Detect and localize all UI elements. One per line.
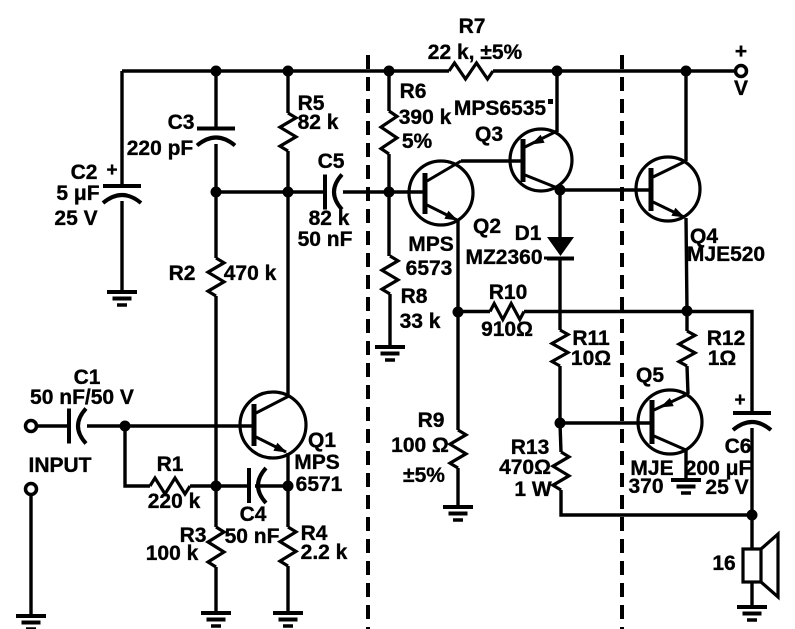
wire bottom rail to speaker <box>750 515 753 549</box>
node Q1 emitter/R4 junction <box>283 481 294 492</box>
svg-text:R9: R9 <box>418 409 445 432</box>
svg-text:370: 370 <box>628 475 663 498</box>
resistor R2 body <box>208 258 224 296</box>
label C6 plus <box>734 390 745 411</box>
node C1/R1 junction <box>120 421 131 432</box>
svg-text:C2: C2 <box>71 161 98 184</box>
wire left rail down to C2 <box>120 71 123 186</box>
wire rail to R6 <box>387 71 390 111</box>
svg-text:MPS: MPS <box>294 451 340 474</box>
svg-text:25 V: 25 V <box>54 207 97 230</box>
wire R5 to node C <box>286 151 289 192</box>
wire C2 to ground <box>120 201 123 292</box>
svg-text:100 Ω: 100 Ω <box>391 434 449 457</box>
node B junction C3/R2 <box>211 187 222 198</box>
label Q2 type1 <box>408 233 454 256</box>
terminal input bottom <box>26 484 37 495</box>
transistor Q5 <box>638 390 702 454</box>
node rail/Q3 emitter junction <box>552 66 563 77</box>
svg-text:R1: R1 <box>157 453 184 476</box>
svg-text:50 nF/50 V: 50 nF/50 V <box>30 386 134 409</box>
label speaker impedance <box>712 552 735 575</box>
wire node B to R2 <box>214 192 217 258</box>
ground below C2 <box>107 292 137 305</box>
svg-text:25 V: 25 V <box>705 476 748 499</box>
wire D1 node to output node <box>560 310 687 313</box>
label Q4 <box>690 225 718 248</box>
resistor R7 body <box>449 63 493 79</box>
label R11 value <box>571 347 611 370</box>
svg-text:C3: C3 <box>168 111 195 134</box>
svg-text:470 k: 470 k <box>224 262 277 285</box>
svg-text:470Ω: 470Ω <box>499 456 551 479</box>
label Q5 <box>636 364 664 387</box>
svg-text:C6: C6 <box>725 435 752 458</box>
label C4 <box>240 503 267 526</box>
wire Q2 collector to Q3 base <box>461 159 523 162</box>
label C1 <box>74 366 101 389</box>
label R9 <box>418 409 445 432</box>
node R2/R3/R1 junction <box>211 481 222 492</box>
svg-text:+: + <box>106 160 117 181</box>
speaker 16 ohm <box>743 534 778 597</box>
wire node C to C5 <box>288 190 325 193</box>
label R13 <box>511 436 550 459</box>
wire R6 to base node <box>387 154 390 192</box>
label R6 <box>400 80 427 103</box>
capacitor C1 <box>69 409 86 444</box>
label R3 <box>180 524 207 547</box>
svg-text:V: V <box>734 77 748 100</box>
svg-text:R8: R8 <box>401 285 428 308</box>
label Q2 type2 <box>406 257 453 280</box>
terminal input top <box>26 421 37 432</box>
resistor R3 body <box>208 527 224 567</box>
svg-text:82 k: 82 k <box>298 111 339 134</box>
svg-text:C5: C5 <box>318 150 345 173</box>
label R8 <box>401 285 428 308</box>
wire R13 to bottom rail <box>561 490 752 515</box>
ground below R3 <box>201 613 231 626</box>
resistor R5 body <box>280 113 296 151</box>
transistor Q1 <box>240 392 306 458</box>
node R11/R13/Q5 base junction <box>555 418 566 429</box>
svg-text:82 k: 82 k <box>309 207 350 230</box>
wire D1 to R10 node <box>558 258 561 311</box>
wire R4 to ground <box>286 566 289 613</box>
svg-text:50 nF: 50 nF <box>298 228 353 251</box>
svg-text:+: + <box>735 40 747 63</box>
label INPUT <box>29 454 92 477</box>
wire R10 left lead <box>458 310 490 313</box>
wire rail to C3 <box>214 71 217 128</box>
label + of V terminal <box>735 40 747 63</box>
label MZ2360 dash <box>544 257 557 260</box>
transistor Q3 <box>510 129 572 191</box>
label R8 value <box>400 310 441 333</box>
resistor R8 body <box>382 256 398 294</box>
svg-text:R6: R6 <box>400 80 427 103</box>
svg-text:6573: 6573 <box>406 257 453 280</box>
label R7 value <box>428 41 523 64</box>
svg-text:Q5: Q5 <box>636 364 664 387</box>
wire rail to R5 <box>286 71 289 113</box>
label Q5 type2 <box>628 475 663 498</box>
wire speaker to ground <box>750 582 753 607</box>
svg-text:10Ω: 10Ω <box>571 347 611 370</box>
capacitor C4 <box>249 468 266 503</box>
node rail/Q4 collector junction <box>681 66 692 77</box>
label R7 <box>459 15 486 38</box>
label C6 value <box>685 457 752 480</box>
wire R1 to R3 node <box>190 484 216 487</box>
svg-text:2.2 k: 2.2 k <box>301 541 348 564</box>
svg-text:220 k: 220 k <box>148 490 201 513</box>
label D1 <box>515 222 542 245</box>
label R6 value <box>399 106 452 129</box>
label V terminal <box>734 77 748 100</box>
label C5 value <box>309 207 350 230</box>
resistor R4 body <box>280 527 296 566</box>
node R6/Q2 base junction <box>384 187 395 198</box>
wire input to C1 <box>37 424 69 427</box>
svg-text:±5%: ±5% <box>403 464 445 487</box>
svg-text:100 k: 100 k <box>146 542 199 565</box>
label R3 value <box>146 542 199 565</box>
terminal +V <box>736 66 747 77</box>
wire top rail right of R7 <box>493 69 735 72</box>
capacitor C5 <box>325 175 342 210</box>
label R13 power <box>514 478 552 501</box>
ground below R8 <box>375 347 405 360</box>
node rail-R5 junction <box>283 66 294 77</box>
svg-text:390 k: 390 k <box>399 106 452 129</box>
wire C6 to bottom rail <box>750 428 753 515</box>
label R6 tol <box>402 130 433 153</box>
label R10 value <box>481 318 533 341</box>
label Q4 type <box>687 243 765 266</box>
svg-text:D1: D1 <box>515 222 542 245</box>
label R5 <box>298 92 325 115</box>
svg-text:R10: R10 <box>489 281 528 304</box>
svg-text:16: 16 <box>712 552 735 575</box>
ground below speaker <box>737 607 767 620</box>
wire Q3 collector down to D1 <box>558 190 561 237</box>
wire Q5 collector to ground <box>684 450 687 479</box>
label R12 <box>707 327 746 350</box>
label R4 value <box>301 541 348 564</box>
svg-text:50 nF: 50 nF <box>225 525 280 548</box>
resistor R12 body <box>679 331 695 366</box>
label C4 value <box>225 525 280 548</box>
wire Q4 collector to rail <box>684 71 687 161</box>
label Q1 <box>308 429 336 452</box>
label C6 voltage <box>705 476 748 499</box>
svg-text:Q2: Q2 <box>473 215 501 238</box>
svg-text:INPUT: INPUT <box>29 454 92 477</box>
label Q1 type2 <box>296 473 343 496</box>
wire C1 to base node <box>87 424 254 427</box>
label Q2 <box>473 215 501 238</box>
svg-text:Q1: Q1 <box>308 429 336 452</box>
label C5 value2 <box>298 228 353 251</box>
capacitor C2 <box>103 186 141 203</box>
label C6 <box>725 435 752 458</box>
resistor R11 body <box>552 330 568 366</box>
wire R2 to R3 node <box>214 296 217 486</box>
resistor R9 body <box>450 430 466 468</box>
wire Q4 emitter to output node <box>686 218 687 311</box>
resistor R10 body <box>490 304 524 320</box>
label R11 <box>572 327 610 350</box>
node output junction <box>682 306 693 317</box>
capacitor C3 <box>197 129 235 146</box>
wire R11 to R13 node <box>558 366 561 423</box>
svg-text:Q3: Q3 <box>475 123 503 146</box>
wire output node to C6 <box>687 312 752 414</box>
label C2 plus <box>106 160 117 181</box>
label R10 <box>489 281 528 304</box>
wire Q1 emitter <box>286 453 289 486</box>
label C2 voltage <box>54 207 97 230</box>
label R2 <box>169 262 196 285</box>
node rail-C3 junction <box>211 66 222 77</box>
wire C4 to emitter node <box>255 484 288 487</box>
capacitor C6 <box>733 413 771 430</box>
resistor R6 body <box>381 111 397 154</box>
svg-text:5%: 5% <box>402 130 433 153</box>
svg-text:R2: R2 <box>169 262 196 285</box>
label R9 tol <box>403 464 445 487</box>
label R2 value <box>224 262 277 285</box>
wire R12 to Q5 emitter <box>687 366 688 394</box>
wire R3 to ground <box>214 567 217 613</box>
label Q5 type1 <box>630 457 673 480</box>
wire top supply rail <box>122 69 449 72</box>
node Q2 emitter/R10 junction <box>453 307 464 318</box>
label R1 value <box>148 490 201 513</box>
wire R3 top lead <box>214 486 217 527</box>
wire R9 to ground <box>456 468 459 507</box>
label R4 <box>301 522 328 545</box>
node bottom rail/C6 junction <box>747 510 758 521</box>
wire R3 node to C4 <box>216 484 249 487</box>
wire R12 top lead <box>685 312 688 332</box>
label C1 value <box>30 386 134 409</box>
label Q1 type1 <box>294 451 340 474</box>
svg-text:MPS: MPS <box>408 233 454 256</box>
wire node B to node C <box>216 190 288 193</box>
wire C1 node down to R1 <box>125 426 150 486</box>
wire C3 to node B <box>214 144 217 192</box>
dashed divider line right <box>620 55 624 629</box>
svg-text:+: + <box>734 390 745 411</box>
node C junction R5/Q1 collector <box>283 187 294 198</box>
ground input <box>16 616 46 629</box>
wire input ground lead <box>29 495 32 616</box>
ground below R4 <box>273 613 303 626</box>
ground below Q5 <box>671 480 701 493</box>
svg-text:5 μF: 5 μF <box>56 182 99 205</box>
svg-text:MZ2360: MZ2360 <box>465 246 542 269</box>
label R12 value <box>708 347 737 370</box>
wire Q3 collector to Q4 base <box>560 188 651 191</box>
wire C5 to R6 node <box>343 190 425 193</box>
label MPS6535 footnote dot <box>548 99 553 104</box>
wire R4 top lead <box>286 486 289 527</box>
svg-text:220 pF: 220 pF <box>127 137 194 160</box>
svg-text:C4: C4 <box>240 503 267 526</box>
label C2 <box>71 161 98 184</box>
svg-text:1 W: 1 W <box>514 478 552 501</box>
label C5 <box>318 150 345 173</box>
transistor Q2 <box>409 161 473 225</box>
label C3 value <box>127 137 194 160</box>
label R1 <box>157 453 184 476</box>
ground below R9 <box>443 507 473 520</box>
label Q3 <box>475 123 503 146</box>
svg-text:6571: 6571 <box>296 473 343 496</box>
dashed divider line left <box>366 55 370 629</box>
diode D1 <box>547 237 574 259</box>
wire R10 to D1 node <box>524 310 560 313</box>
svg-text:R7: R7 <box>459 15 486 38</box>
svg-text:22 k, ±5%: 22 k, ±5% <box>428 41 523 64</box>
wire Q3 emitter to rail <box>555 71 558 132</box>
label R5 value <box>298 111 339 134</box>
label Q3 type <box>454 97 547 120</box>
wire base node to R8 <box>387 192 390 256</box>
svg-text:910Ω: 910Ω <box>481 318 533 341</box>
wire R8 to ground <box>388 294 391 347</box>
node rail-R6 junction <box>384 66 395 77</box>
node Q3 collector junction <box>555 185 566 196</box>
svg-text:1Ω: 1Ω <box>708 347 737 370</box>
label R9 value <box>391 434 449 457</box>
wire R9 top lead <box>456 312 459 430</box>
wire R11 top lead <box>558 312 561 331</box>
wire Q5 base <box>560 421 652 424</box>
wire Q1 collector <box>286 192 289 396</box>
transistor Q4 <box>636 157 700 221</box>
svg-text:MJE520: MJE520 <box>687 243 765 266</box>
label C2 value <box>56 182 99 205</box>
wire Q2 emitter <box>456 221 459 312</box>
resistor R1 body <box>150 478 190 494</box>
resistor R13 body <box>553 452 569 490</box>
label D1 type <box>465 246 542 269</box>
label C3 <box>168 111 195 134</box>
label R13 value <box>499 456 551 479</box>
svg-text:33 k: 33 k <box>400 310 441 333</box>
svg-text:MPS6535: MPS6535 <box>454 97 547 120</box>
wire R13 top lead <box>560 423 561 452</box>
